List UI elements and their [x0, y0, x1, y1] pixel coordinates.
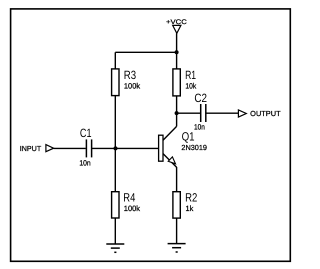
resistor R1 [173, 68, 196, 96]
svg-text:C1: C1 [80, 126, 92, 140]
svg-text:10n: 10n [194, 122, 205, 131]
wire R4 bottom to ground [114, 218, 116, 244]
svg-text:R2: R2 [185, 191, 197, 205]
wire C2 to output port [206, 112, 238, 114]
node collector junction [175, 111, 179, 115]
resistor R4 [112, 191, 136, 219]
ground (right) [168, 244, 186, 252]
wire top rail [115, 51, 176, 53]
svg-text:100k: 100k [124, 81, 140, 90]
svg-text:OUTPUT: OUTPUT [250, 109, 281, 118]
svg-text:Q1: Q1 [182, 129, 195, 143]
resistor R3 [112, 68, 137, 96]
svg-text:100k: 100k [124, 204, 140, 213]
transistor Q1 [159, 126, 195, 167]
svg-text:10k: 10k [185, 81, 196, 90]
capacitor C1 [80, 126, 92, 158]
node VCC rail junction [175, 50, 179, 54]
wire R1 bottom to collector node [176, 96, 178, 113]
wire R3 bottom to base node [114, 96, 116, 148]
svg-text:C2: C2 [194, 91, 207, 105]
svg-text:R4: R4 [123, 191, 135, 205]
svg-text:1k: 1k [186, 204, 194, 213]
wire C1 to base node [92, 147, 116, 149]
capacitor C2 [194, 91, 207, 122]
wire input port to C1 [54, 147, 86, 149]
svg-text:R3: R3 [124, 68, 137, 82]
ground (left) [106, 244, 124, 252]
node OUTPUT port [238, 109, 281, 118]
svg-text:INPUT: INPUT [20, 144, 42, 153]
wire collector vertical [176, 113, 178, 126]
wire collector node to C2 [177, 112, 200, 114]
node base junction [114, 146, 118, 150]
resistor R2 [173, 191, 198, 219]
wire base node to R4 [114, 148, 116, 192]
power +VCC [166, 19, 187, 33]
wire R2 bottom to ground [176, 218, 178, 244]
svg-text:10n: 10n [79, 158, 90, 167]
svg-text:R1: R1 [185, 68, 196, 82]
wire R3 top lead [114, 52, 116, 69]
wire base node to Q1 base [115, 147, 158, 149]
wire VCC stem [176, 33, 178, 52]
wire emitter vertical [176, 167, 178, 192]
svg-text:2N3019: 2N3019 [181, 143, 207, 152]
wire R1 top lead [176, 52, 178, 69]
node INPUT port [20, 144, 54, 153]
